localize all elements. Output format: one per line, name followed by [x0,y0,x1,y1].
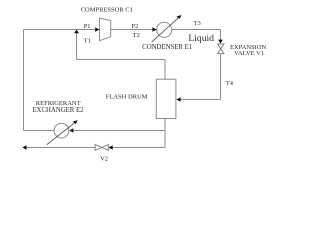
svg-text:Liquid: Liquid [188,33,214,44]
svg-text:T2: T2 [133,32,140,39]
svg-text:T4: T4 [226,80,234,87]
svg-text:COMPRESSOR C1: COMPRESSOR C1 [81,6,133,13]
svg-text:P2: P2 [132,23,139,30]
svg-text:FLASH DRUM: FLASH DRUM [106,93,148,100]
svg-text:VALVE V1: VALVE V1 [234,50,264,57]
svg-text:T1: T1 [84,38,91,45]
svg-text:V2: V2 [100,156,108,163]
svg-text:T3: T3 [194,20,201,27]
svg-text:EXCHANGER E2: EXCHANGER E2 [32,107,84,114]
svg-text:CONDENSER E1: CONDENSER E1 [142,44,192,51]
svg-text:P1: P1 [84,23,91,30]
